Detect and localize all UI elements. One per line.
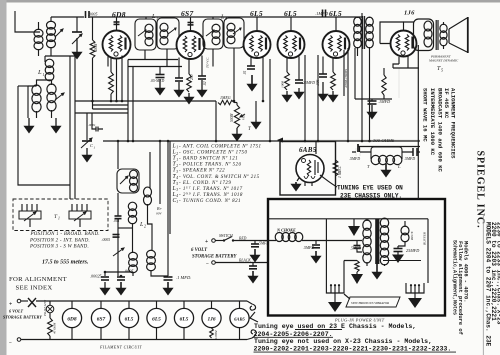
grid cap 6D8 bbox=[116, 22, 118, 31]
svg-text:.5MFD: .5MFD bbox=[349, 157, 360, 161]
svg-text:PLUG-IN POWER UNIT: PLUG-IN POWER UNIT bbox=[334, 318, 385, 323]
svg-text:500M: 500M bbox=[230, 113, 234, 122]
capacitor .1MFD output bbox=[355, 99, 392, 101]
svg-text:5: 5 bbox=[441, 68, 443, 73]
pilot light bbox=[49, 301, 51, 305]
pointer squiggle to tuning eye text bbox=[320, 175, 337, 187]
svg-text:PILOT LITE: PILOT LITE bbox=[43, 300, 47, 317]
AVC bus lines bbox=[75, 100, 216, 102]
svg-text:.0005.: .0005. bbox=[124, 269, 134, 274]
interstage transformer driver bbox=[354, 17, 362, 26]
svg-text:25MFD: 25MFD bbox=[406, 248, 419, 253]
capacitor 6S7 cathode bbox=[178, 58, 180, 79]
ground transformer center tap bbox=[376, 264, 378, 272]
svg-text:- EL. COND. Nº 1729: - EL. COND. Nº 1729 bbox=[179, 180, 231, 186]
svg-text:STORAGE BATTERY: STORAGE BATTERY bbox=[3, 315, 42, 320]
volume control potentiometer 500M bbox=[236, 103, 238, 106]
wire antenna lead-in bbox=[15, 11, 40, 32]
svg-text:3: 3 bbox=[156, 16, 158, 21]
coil padder secondary bbox=[147, 250, 156, 258]
capacitor .02MFD bbox=[201, 56, 203, 77]
ground black 6L5-1 bbox=[251, 75, 253, 84]
coil L1 wave band secondary bbox=[47, 84, 56, 94]
wires L3 connections bbox=[145, 17, 167, 67]
wire main B+ bus bbox=[103, 140, 420, 142]
tube V1 6D8 first detector bbox=[103, 31, 131, 59]
svg-text:SEE INDEX: SEE INDEX bbox=[16, 285, 53, 292]
wire internal lower line bbox=[344, 261, 357, 284]
tuning eye enclosure box bbox=[280, 142, 336, 196]
wire right interior bbox=[427, 219, 429, 283]
svg-text:IF 465 KC: IF 465 KC bbox=[443, 88, 450, 119]
svg-text:- VOL. CONT. & SWITCH Nº 215: - VOL. CONT. & SWITCH Nº 215 bbox=[179, 174, 260, 180]
ground 25MFD bbox=[392, 255, 404, 264]
wire to transformer bbox=[316, 240, 362, 242]
svg-text:−: − bbox=[9, 340, 12, 346]
filament tube 6D8 bbox=[71, 301, 73, 308]
wire center vertical bbox=[325, 219, 327, 283]
svg-text:6L5: 6L5 bbox=[284, 9, 297, 18]
ground .1MFD output bbox=[371, 105, 373, 112]
svg-text:.0005: .0005 bbox=[88, 12, 97, 17]
svg-text:FOR ALIGNMENT: FOR ALIGNMENT bbox=[9, 276, 67, 283]
fuse bbox=[21, 300, 28, 302]
capacitor padder 1 bbox=[101, 276, 109, 278]
svg-text:1: 1 bbox=[43, 72, 45, 77]
wire transformer bottom bbox=[367, 262, 385, 266]
svg-text:2: 2 bbox=[176, 164, 178, 168]
capacitor .0005 antenna series bbox=[85, 11, 87, 18]
wire L1 lower link bbox=[44, 56, 46, 62]
wire bus with left arrow bbox=[280, 139, 420, 141]
ground field coil bbox=[385, 164, 387, 170]
svg-text:6L5: 6L5 bbox=[125, 316, 134, 322]
capacitor padder 2 bbox=[120, 276, 122, 277]
svg-text:- POLICE TRANS. Nº 526: - POLICE TRANS. Nº 526 bbox=[179, 162, 241, 168]
capacitor .05MFD screen bbox=[159, 67, 161, 75]
svg-text:.25MFD: .25MFD bbox=[302, 81, 315, 85]
svg-text:17.5 to 555 meters.: 17.5 to 555 meters. bbox=[42, 260, 89, 266]
svg-text:STORAGE BATTERY: STORAGE BATTERY bbox=[192, 255, 238, 260]
coil L2 right pickup bbox=[144, 187, 152, 197]
pointer to vibrator bbox=[344, 294, 350, 299]
svg-text:1J6: 1J6 bbox=[207, 316, 215, 322]
svg-text:2230 to 2233 inc.,Chas. X-23: 2230 to 2233 inc.,Chas. X-23 bbox=[496, 222, 500, 325]
band switch dashed enclosure T1 bbox=[13, 199, 108, 231]
svg-text:BLACK: BLACK bbox=[239, 259, 251, 263]
ground volume control bbox=[236, 128, 238, 134]
output transformer primary coil bbox=[424, 21, 432, 31]
socket right bbox=[406, 283, 424, 293]
capacitor field left .5MFD bbox=[357, 151, 359, 153]
ground mid right bbox=[255, 101, 257, 120]
output transformer core bbox=[435, 20, 437, 50]
tuning cap C1 second gang bbox=[86, 113, 88, 140]
svg-text:RECT.: RECT. bbox=[410, 231, 414, 241]
resistor 1J6 grid bias bbox=[382, 75, 386, 95]
ground arrow bleeder bbox=[351, 274, 363, 284]
svg-text:- BAND SWITCH Nº 121: - BAND SWITCH Nº 121 bbox=[179, 156, 238, 162]
svg-text:L: L bbox=[37, 69, 42, 76]
svg-text:Tuning eye not used on X-23 Ch: Tuning eye not used on X-23 Chassis - Mo… bbox=[254, 338, 432, 345]
svg-text:Models 4006 - 4070.: Models 4006 - 4070. bbox=[463, 241, 469, 302]
svg-text:Follow alignment procedure of: Follow alignment procedure of bbox=[457, 241, 463, 335]
filament tube 6L5 bbox=[128, 301, 130, 308]
svg-text:MAGNET DYNAMIC: MAGNET DYNAMIC bbox=[428, 59, 459, 63]
tube V4 6L5 first audio bbox=[278, 31, 305, 58]
svg-text:2200-2202-2201-2203-2220-2221-: 2200-2202-2201-2203-2220-2221-2230-2231-… bbox=[254, 346, 452, 353]
pointer arrow to note bbox=[250, 312, 258, 322]
band switch section 2 bbox=[72, 204, 87, 211]
svg-text:- 2ᴺᴰ I.F. TRANS. Nº 1018: - 2ᴺᴰ I.F. TRANS. Nº 1018 bbox=[179, 192, 243, 198]
capacitor 25MFD bbox=[397, 246, 399, 248]
capacitor black lead bbox=[252, 263, 254, 267]
wires 6D8 cathode legs bbox=[107, 57, 109, 67]
svg-text:.05-MFD: .05-MFD bbox=[150, 79, 164, 83]
svg-text:6S7: 6S7 bbox=[97, 316, 106, 322]
ground .05MFD bbox=[159, 79, 161, 88]
svg-text:+: + bbox=[9, 302, 12, 308]
coil L1 antenna secondary (tuned) bbox=[47, 21, 56, 29]
svg-text:POSITION 2 - INT. BAND.: POSITION 2 - INT. BAND. bbox=[29, 238, 90, 243]
svg-text:L: L bbox=[397, 164, 401, 169]
svg-text:TUNING EYE USED ON: TUNING EYE USED ON bbox=[337, 185, 403, 192]
filament tube 6L5 bbox=[183, 301, 185, 308]
capacitor .25MFD bypass bbox=[298, 57, 300, 81]
wires field coil bbox=[360, 151, 413, 153]
coil L1 wave band primary bbox=[32, 85, 41, 95]
ground under band coil 1 bbox=[28, 118, 30, 126]
svg-text:2204-2205-2206-2207.: 2204-2205-2206-2207. bbox=[254, 331, 333, 338]
svg-text:1: 1 bbox=[58, 217, 60, 221]
trimmer arrow on band coil bbox=[55, 93, 64, 100]
svg-text:−: − bbox=[206, 261, 209, 267]
output transformer T3 enclosure bbox=[414, 19, 434, 51]
wires L2 lower connections bbox=[132, 223, 134, 253]
svg-text:6AB5: 6AB5 bbox=[299, 146, 317, 154]
power unit enclosure bbox=[268, 199, 445, 316]
svg-text:6D8: 6D8 bbox=[112, 10, 126, 19]
svg-text:- ANT. COIL COMPLETE Nº 1751: - ANT. COIL COMPLETE Nº 1751 bbox=[179, 144, 262, 150]
svg-text:SHORT WAVE 16 MC: SHORT WAVE 16 MC bbox=[421, 88, 428, 142]
svg-text:250: 250 bbox=[190, 74, 194, 80]
rectifier winding bbox=[401, 226, 409, 235]
svg-text:1MEG: 1MEG bbox=[220, 95, 231, 100]
svg-text:1 MEG.: 1 MEG. bbox=[338, 166, 342, 178]
band switch section 1 bbox=[22, 204, 37, 211]
svg-text:.001: .001 bbox=[113, 219, 120, 223]
coil L1 coupling winding bbox=[45, 59, 54, 67]
svg-text:INTERMEDIATE 1800 KC: INTERMEDIATE 1800 KC bbox=[429, 88, 436, 156]
ground under band coil 2 bbox=[55, 118, 57, 126]
svg-text:BROADCAST 1400 and 600 KC: BROADCAST 1400 and 600 KC bbox=[436, 88, 443, 173]
ground in tuning eye box bbox=[297, 178, 299, 181]
svg-text:.5MFD: .5MFD bbox=[404, 157, 415, 161]
coil L2 oscillator upper bbox=[130, 170, 138, 178]
resistor 40 ohm pilot bbox=[49, 313, 51, 318]
tube V7 6AB5 tuning eye bbox=[296, 155, 324, 183]
tube V5 6L5 second audio bbox=[323, 31, 350, 58]
wire black lead bbox=[215, 262, 267, 264]
svg-text:.1MFD: .1MFD bbox=[378, 99, 390, 104]
tube V2 6S7 IF amplifier bbox=[177, 31, 205, 59]
svg-text:4: 4 bbox=[176, 194, 178, 198]
svg-text:90V: 90V bbox=[156, 212, 162, 216]
svg-text:1: 1 bbox=[176, 158, 178, 162]
tuning cap C1 first gang bbox=[72, 34, 82, 44]
svg-text:2: 2 bbox=[144, 224, 146, 229]
voice coil bbox=[440, 24, 447, 32]
svg-text:TO V.C.: TO V.C. bbox=[206, 57, 210, 68]
field coil 300 ohms bbox=[371, 147, 402, 159]
svg-text:6AB5: 6AB5 bbox=[234, 316, 245, 321]
capacitor .006 bbox=[322, 57, 324, 75]
wire left tank loop bbox=[18, 86, 70, 185]
filament tube 1J6 bbox=[211, 301, 213, 308]
trimmer arrow osc padder bbox=[113, 248, 124, 256]
svg-text:ALIGNMENT FREQUENCIES: ALIGNMENT FREQUENCIES bbox=[449, 88, 456, 159]
svg-text:6S7: 6S7 bbox=[181, 9, 194, 18]
filament tube 6L5 bbox=[156, 301, 158, 308]
down arrow B minus bbox=[353, 219, 355, 226]
capacitor 6L5-1 plate bbox=[250, 57, 252, 66]
wires padder bbox=[133, 270, 168, 276]
svg-text:.02: .02 bbox=[203, 81, 207, 86]
svg-text:- SPEAKER Nº 722: - SPEAKER Nº 722 bbox=[179, 168, 225, 174]
svg-text:.0005: .0005 bbox=[102, 238, 111, 242]
svg-text:POSITION 3 - S W BAND.: POSITION 3 - S W BAND. bbox=[29, 245, 89, 250]
fold shadow rule bbox=[482, 214, 484, 355]
coil L2 oscillator lower bbox=[128, 202, 136, 210]
wire parts list separator bbox=[169, 141, 171, 234]
svg-text:.1 MFD.: .1 MFD. bbox=[176, 275, 191, 280]
svg-text:+: + bbox=[205, 239, 208, 245]
svg-text:6L5: 6L5 bbox=[329, 9, 342, 18]
svg-text:300-OHMS: 300-OHMS bbox=[373, 138, 395, 143]
svg-text:4: 4 bbox=[176, 176, 178, 180]
svg-text:- 1ᵁᵀ I.F. TRANS. Nº 1017: - 1ᵁᵀ I.F. TRANS. Nº 1017 bbox=[179, 186, 243, 192]
ground socket left bbox=[334, 293, 336, 302]
trimmer arrow osc bbox=[120, 176, 128, 184]
tube V3 6L5 detector bbox=[244, 31, 271, 58]
ground below C1 gang1 bbox=[76, 38, 78, 52]
svg-text:Schematic,Alignment,Notes: Schematic,Alignment,Notes bbox=[452, 240, 458, 315]
svg-text:6 OHM: 6 OHM bbox=[215, 330, 218, 339]
IF transformer L3 can B bbox=[157, 18, 179, 49]
coil padder primary bbox=[129, 252, 138, 260]
capacitor 1MFD bbox=[167, 141, 169, 276]
resistor 250 ohm bbox=[188, 59, 190, 74]
svg-text:N CHOKE: N CHOKE bbox=[276, 228, 296, 233]
vibrator transformer core bbox=[375, 219, 379, 264]
cable pigtail connector bbox=[247, 301, 256, 310]
svg-text:5: 5 bbox=[176, 182, 178, 186]
svg-text:VOL: VOL bbox=[242, 114, 246, 120]
svg-text:6L5: 6L5 bbox=[180, 316, 189, 322]
capacitor field right .5MFD bbox=[413, 148, 417, 156]
svg-text:- OSC. COMPLETE Nº 1750: - OSC. COMPLETE Nº 1750 bbox=[179, 150, 247, 156]
vibrator transformer primary bbox=[363, 220, 371, 230]
oscillator shield box bbox=[117, 169, 139, 193]
wire double vertical to band switch bbox=[69, 56, 71, 199]
svg-text:1: 1 bbox=[176, 146, 178, 150]
resistor 1000 ohms cathode bbox=[286, 58, 288, 73]
trimmer arrow on L1 secondary bbox=[55, 29, 63, 37]
svg-text:1000: 1000 bbox=[281, 81, 285, 88]
IF transformer L3 can A bbox=[135, 19, 156, 50]
IF transformer L4 can A bbox=[203, 19, 223, 49]
svg-text:Tuning eye used on 23 E Chassi: Tuning eye used on 23 E Chassis - Models… bbox=[254, 323, 416, 330]
filament tube 6S7 bbox=[100, 301, 102, 308]
svg-text:6L5: 6L5 bbox=[152, 316, 161, 322]
resistor 6L5-3 cathode bbox=[332, 58, 334, 73]
svg-text:B+: B+ bbox=[157, 206, 162, 211]
wire secondary bus right bbox=[358, 146, 420, 148]
vibrator transformer secondary bbox=[380, 218, 388, 227]
svg-text:.01: .01 bbox=[243, 70, 247, 75]
svg-text:3: 3 bbox=[176, 188, 178, 192]
wire B+ vertical bbox=[355, 13, 362, 99]
svg-text:3: 3 bbox=[176, 170, 178, 174]
svg-text:.00025: .00025 bbox=[90, 274, 102, 279]
wires 1J6 connections bbox=[404, 22, 414, 31]
svg-text:FILAMENT CIRCUIT: FILAMENT CIRCUIT bbox=[99, 345, 142, 350]
svg-text:1J6: 1J6 bbox=[404, 10, 415, 17]
wire red lead bbox=[233, 240, 267, 242]
speaker cone bbox=[443, 22, 445, 49]
svg-text:400M: 400M bbox=[94, 43, 98, 52]
IF transformer L4 can B bbox=[224, 18, 244, 48]
resistor 1MEG tuning eye bbox=[333, 160, 338, 176]
wires band coils bbox=[37, 80, 52, 118]
wire osc section feeds bbox=[117, 141, 119, 169]
ground 6L5-2 a bbox=[286, 91, 288, 95]
schematic right border bbox=[417, 45, 419, 199]
coil L1 antenna primary bbox=[34, 29, 43, 37]
wire internal top line bbox=[268, 218, 428, 220]
wire top bus bbox=[78, 16, 362, 18]
bus under 6D8/6S7 bbox=[128, 59, 178, 61]
resistor 400M grid bbox=[92, 17, 94, 40]
socket left bbox=[326, 283, 344, 293]
svg-text:RED: RED bbox=[238, 237, 247, 241]
wires L4 connections bbox=[213, 17, 234, 101]
svg-text:POSITION 1 - BROAD. BAND.: POSITION 1 - BROAD. BAND. bbox=[30, 232, 100, 237]
svg-text:1: 1 bbox=[176, 200, 178, 204]
wire 6AB5 grid feed bbox=[315, 142, 317, 155]
grid cap 6S7 bbox=[190, 23, 192, 31]
svg-text:2: 2 bbox=[176, 152, 178, 156]
inductor N choke bbox=[275, 233, 283, 242]
svg-text:6L5: 6L5 bbox=[250, 9, 263, 18]
capacitor .5MFD choke output bbox=[315, 241, 317, 245]
synchronous vibrator label plate bbox=[346, 297, 400, 307]
svg-text:4: 4 bbox=[225, 16, 227, 21]
svg-text:6 VOLT: 6 VOLT bbox=[9, 309, 23, 314]
svg-text:470M-OHMS: 470M-OHMS bbox=[344, 69, 348, 88]
svg-text:BUFFER: BUFFER bbox=[423, 231, 427, 245]
svg-text:SYNCHRONOUS VIBRATOR: SYNCHRONOUS VIBRATOR bbox=[351, 301, 389, 305]
ground 6L5-2 b bbox=[298, 88, 300, 92]
svg-text:6D8: 6D8 bbox=[67, 316, 77, 322]
resistor bleeder bbox=[355, 261, 359, 273]
resistor 6D8 bias bbox=[110, 58, 112, 73]
wire bus links bbox=[215, 101, 217, 141]
svg-text:6 VOLT: 6 VOLT bbox=[191, 248, 208, 253]
ground socket right bbox=[414, 293, 416, 298]
filament tube 6AB5 bbox=[239, 301, 241, 308]
svg-text:- TUNING COND. Nº 821: - TUNING COND. Nº 821 bbox=[179, 198, 241, 204]
tube V6 1J6 output bbox=[391, 31, 417, 57]
wire L1 top to tuning cap bbox=[51, 16, 78, 18]
svg-text:40 OHM: 40 OHM bbox=[53, 322, 57, 334]
